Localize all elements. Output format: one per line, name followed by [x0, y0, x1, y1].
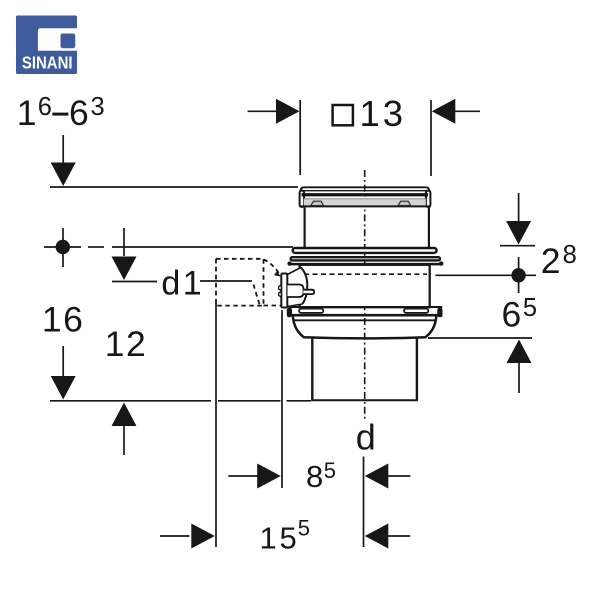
svg-text:5: 5: [298, 516, 310, 541]
extension line x=282 (from side port): [281, 310, 283, 488]
side port plate: [281, 274, 287, 308]
arrow down to L1: [51, 135, 76, 186]
svg-text:16: 16: [42, 300, 85, 340]
dimension reference line L2 bottom: [50, 400, 211, 402]
svg-text:1: 1: [17, 93, 37, 133]
svg-text:8: 8: [306, 459, 323, 494]
side port bell interior mask: [287, 268, 307, 308]
lower body: [300, 265, 430, 307]
flange clip left: [311, 201, 324, 205]
svg-text:6: 6: [502, 295, 522, 335]
label 16-63: [17, 93, 105, 133]
top flange: top bar: [301, 187, 430, 195]
ribbed collar: [293, 248, 437, 253]
dimension reference line L1 top left: [50, 186, 298, 188]
arrow right to V1: [248, 99, 300, 124]
side port tabs: [279, 285, 282, 291]
svg-text:6: 6: [69, 93, 89, 133]
arrow down (16 bottom): [51, 346, 76, 400]
flange gray band: [304, 199, 426, 206]
bottom flange: [288, 306, 442, 308]
right column: arrow down to L3: [506, 193, 531, 245]
bowl: [294, 319, 436, 321]
svg-text:5: 5: [523, 294, 537, 322]
funnel leader arrowhead: [274, 271, 281, 276]
upper pipe walls: [304, 208, 306, 248]
extension line x=363.5 (center): [363, 457, 365, 548]
svg-text:15: 15: [260, 521, 300, 556]
dot cross at left: [44, 228, 293, 267]
right dot cross on L4: [436, 257, 537, 293]
flange end caps: [300, 191, 305, 207]
8^5 dimension arrows: [228, 464, 410, 489]
side port bell arc: [301, 268, 308, 305]
svg-text:2: 2: [541, 241, 561, 281]
dashed funnel box: [216, 259, 281, 306]
square symbol for 13: [333, 105, 353, 125]
arrow down (12 top): [112, 228, 137, 280]
svg-text:d1: d1: [161, 265, 204, 303]
internal dashed line: [304, 273, 427, 275]
L3 right segment: [500, 245, 535, 247]
flange clips: [299, 309, 323, 313]
svg-text:d: d: [356, 417, 376, 458]
flange seal band: [302, 193, 429, 196]
extension line x=216 (from dashed box): [215, 303, 217, 547]
svg-text:12: 12: [105, 324, 148, 364]
top dimension extension line V2: [430, 100, 432, 176]
svg-text:3: 3: [91, 93, 105, 121]
logo blue square: [16, 16, 77, 75]
outlet pipe: [311, 338, 313, 401]
top dimension extension line V1: [299, 100, 301, 175]
logo inner blue counter: [61, 34, 76, 49]
svg-text:13: 13: [360, 93, 407, 134]
d1 leader lines: [112, 281, 157, 283]
arrow up to L5: [507, 340, 532, 394]
flange clip right: [398, 201, 411, 205]
arrow up (12 bottom): [112, 403, 137, 456]
logo white G shape: [38, 28, 78, 51]
arrow left to V2: [432, 99, 480, 124]
15^5 dimension arrows: [160, 524, 410, 549]
svg-text:6: 6: [38, 93, 52, 121]
center line: [364, 170, 366, 420]
L5 right segment: [428, 337, 532, 339]
svg-text:5: 5: [324, 458, 336, 483]
svg-text:SINANI: SINANI: [22, 53, 73, 72]
svg-text:8: 8: [563, 241, 577, 269]
side port barb: [288, 285, 304, 298]
